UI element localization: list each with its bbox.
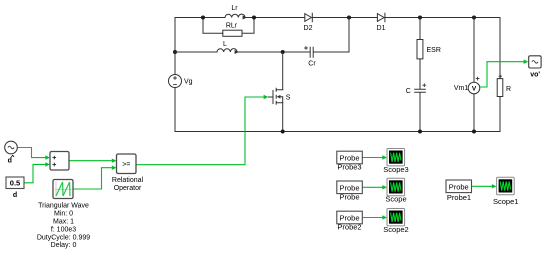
svg-text:Probe1: Probe1 [447, 193, 471, 202]
voltage source Vg [169, 75, 182, 88]
diode D2 [305, 13, 313, 22]
svg-text:RLr: RLr [226, 23, 238, 30]
wire left rail [174, 18, 176, 132]
node L branch [173, 50, 177, 54]
wire probe to scope [362, 186, 383, 188]
output block vo' [529, 56, 541, 79]
svg-text:vo': vo' [530, 72, 540, 79]
svg-text:C: C [406, 88, 411, 95]
scope Scope2 [387, 209, 405, 226]
probe Probe [337, 181, 363, 194]
probe Probe3 [337, 151, 363, 164]
svg-text:V: V [472, 85, 477, 92]
wire R branch [499, 18, 501, 132]
wire triangular to relational [73, 168, 113, 189]
scope Scope [387, 178, 405, 195]
svg-text:ESR: ESR [427, 47, 441, 54]
arrow into sum input2 [45, 162, 50, 166]
wire relational to MOSFET gate [136, 97, 264, 165]
voltmeter Vm1 [468, 77, 480, 94]
diode D1 [377, 13, 385, 22]
constant block 0.5 [6, 177, 24, 199]
wire RLr left branch [203, 18, 223, 34]
wire RLr right branch [242, 18, 254, 34]
svg-text:Max: 1: Max: 1 [53, 219, 74, 226]
svg-text:Scope2: Scope2 [383, 225, 408, 234]
resistor RLr [223, 30, 242, 36]
svg-text:f: 100e3: f: 100e3 [51, 226, 76, 233]
svg-text:d: d [13, 192, 17, 199]
arrow into sum input1 [45, 155, 50, 159]
resistor ESR [417, 40, 423, 59]
arrow into scope2 [382, 215, 387, 219]
relational operator block [117, 154, 137, 174]
resistor R [497, 75, 503, 97]
svg-text:Vg: Vg [184, 79, 193, 86]
wire probe2 to scope2 [362, 217, 383, 219]
capacitor Cr [305, 47, 314, 58]
svg-text:Relational: Relational [112, 177, 144, 184]
probe Probe2 [337, 211, 363, 224]
svg-text:Operator: Operator [114, 185, 142, 192]
svg-text:>=: >= [122, 162, 130, 169]
svg-text:Probe: Probe [339, 192, 359, 201]
svg-text:S: S [286, 94, 291, 101]
svg-text:D2: D2 [304, 25, 313, 32]
triangular wave block [53, 180, 73, 199]
node at 254 [252, 16, 256, 20]
source block d-hat [5, 141, 18, 164]
node MOSFET source bottom [281, 130, 285, 134]
wire Vm1 branch [473, 18, 475, 132]
node Vm1 top [472, 16, 476, 20]
inductor L [217, 49, 239, 54]
wire probe1 to scope1 [472, 185, 493, 187]
svg-text:d: d [8, 158, 12, 165]
svg-text:Min: 0: Min: 0 [54, 211, 73, 218]
MOSFET S [268, 52, 282, 132]
svg-text:Scope1: Scope1 [493, 197, 518, 206]
wire d-hat to sum [17, 148, 46, 158]
svg-text:Probe2: Probe2 [337, 223, 361, 232]
node MOSFET drain [281, 50, 285, 54]
sum block [50, 152, 69, 171]
wire sum to relational [69, 160, 113, 162]
svg-text:Lr: Lr [231, 5, 238, 12]
arrow into vo block [524, 60, 529, 64]
svg-text:Cr: Cr [308, 61, 316, 68]
scope Scope1 [497, 177, 515, 194]
svg-text:Delay: 0: Delay: 0 [51, 242, 77, 249]
arrow into scope [382, 185, 387, 189]
svg-text:0.5: 0.5 [10, 179, 20, 188]
wire top rail [175, 17, 500, 19]
svg-text:Scope3: Scope3 [383, 165, 408, 174]
node C bottom [418, 130, 422, 134]
arrow into MOSFET gate [264, 95, 269, 99]
scope Scope3 [387, 149, 405, 166]
arrow into relational input1 [112, 159, 117, 163]
svg-text:R: R [506, 86, 511, 93]
capacitor C [415, 84, 426, 92]
svg-text:Triangular Wave: Triangular Wave [38, 203, 89, 210]
wire d const to sum [24, 164, 46, 182]
node Vm1 bottom [472, 130, 476, 134]
wire ESR branch [419, 18, 421, 132]
probe Probe1 [446, 180, 472, 193]
inductor Lr [225, 14, 247, 19]
svg-text:Vm1: Vm1 [454, 85, 469, 92]
wire Vm1 to vo output [480, 62, 524, 87]
svg-text:D1: D1 [377, 25, 386, 32]
wire L rail [175, 18, 349, 53]
svg-text:DutyCycle: 0.999: DutyCycle: 0.999 [37, 234, 90, 241]
node ESR top [418, 16, 422, 20]
node Cr top [347, 16, 351, 20]
arrow into scope3 [382, 155, 387, 159]
svg-text:Probe3: Probe3 [337, 163, 361, 172]
svg-text:Scope: Scope [385, 195, 406, 204]
wire probe3 to scope3 [362, 157, 383, 159]
node at 203 [201, 16, 205, 20]
svg-text:L: L [223, 41, 227, 48]
arrow into relational input2 [112, 166, 117, 170]
wire bottom rail [175, 131, 500, 133]
arrow into scope1 [492, 184, 497, 188]
